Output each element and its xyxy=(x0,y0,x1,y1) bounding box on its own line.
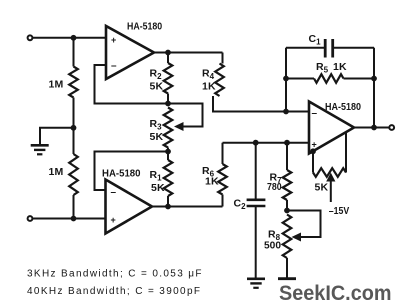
junction node U2 output / R1 xyxy=(165,204,171,210)
wire U2 feedback (node B to - input) xyxy=(95,152,169,191)
resistor R7 xyxy=(283,143,292,211)
input terminal J2 (bottom) xyxy=(28,216,33,221)
junction node input1/1M xyxy=(71,35,77,41)
label R7 xyxy=(270,172,283,186)
capacitor C2 xyxy=(247,200,266,206)
svg-text:1K: 1K xyxy=(202,81,216,93)
op-amp U2 HA-5180 (bottom) xyxy=(106,180,153,234)
junction node 1M mid / ground branch xyxy=(71,125,77,131)
label R2 value 5K xyxy=(150,81,164,93)
junction node 5K pot / U3 + input xyxy=(310,148,316,154)
resistor R6 xyxy=(218,143,227,207)
label R5 xyxy=(316,61,329,75)
wire input1 to op-amp U1 + input xyxy=(33,37,107,39)
caption line 2 xyxy=(27,286,200,297)
wire C2 bottom lead xyxy=(255,206,257,279)
svg-text:–: – xyxy=(312,108,318,119)
label R3 xyxy=(150,118,163,132)
label R4 xyxy=(202,68,215,82)
label R2 xyxy=(150,68,163,82)
resistor R5 xyxy=(286,74,374,83)
wire C2 top lead xyxy=(255,143,257,199)
svg-text:+: + xyxy=(111,35,116,45)
svg-text:+: + xyxy=(111,215,116,225)
wire U2 output xyxy=(152,206,223,208)
label R6 xyxy=(202,165,215,179)
label R7 value 780 xyxy=(267,182,282,193)
input terminal J1 (top) xyxy=(28,35,33,40)
svg-text:SeekIC.com: SeekIC.com xyxy=(279,281,392,305)
resistor 1M (bottom) xyxy=(69,128,78,219)
wire C1/R5 right vertical xyxy=(373,48,375,128)
svg-text:–15V: –15V xyxy=(329,205,350,217)
label HA-5180 (U3) xyxy=(325,102,361,113)
ground (R8) xyxy=(278,277,296,280)
svg-text:+: + xyxy=(312,140,317,150)
label R8 value 500 xyxy=(264,241,281,252)
output terminal J3 xyxy=(389,125,394,130)
label 5K (offset pot) xyxy=(315,182,329,194)
label 1M (bottom) xyxy=(49,166,64,178)
junction node C2 / + rail xyxy=(253,140,259,146)
junction node input2/1M xyxy=(71,216,77,222)
label C1 xyxy=(309,33,322,47)
wire ground branch xyxy=(40,128,74,145)
label R3 value 5K xyxy=(150,131,164,143)
watermark SeekIC.com xyxy=(279,281,392,305)
caption line 1 xyxy=(27,269,202,280)
op-amp U3 HA-5180 (right) xyxy=(309,102,354,154)
wire input2 to op-amp U2 + input xyxy=(33,218,106,220)
label HA-5180 (U2) xyxy=(102,168,141,179)
wire C1/R5 left vertical xyxy=(285,48,287,112)
wire U3 + input (non-inverting rail) xyxy=(223,142,310,144)
wire R8 wiper loop xyxy=(287,211,321,238)
wire U1 output xyxy=(154,52,223,54)
wiper arrowhead R8 xyxy=(292,233,302,242)
junction node U1 output / R2 xyxy=(165,50,171,56)
label R6 value 1K xyxy=(205,176,219,188)
svg-text:5K: 5K xyxy=(151,182,165,194)
svg-text:HA-5180: HA-5180 xyxy=(127,22,162,33)
label R1 value 5K xyxy=(151,182,165,194)
svg-text:–: – xyxy=(111,187,117,198)
potentiometer R8 xyxy=(283,215,292,278)
svg-text:40KHz Bandwidth; C = 3900pF: 40KHz Bandwidth; C = 3900pF xyxy=(27,286,200,297)
ground (C2) xyxy=(247,279,265,288)
ground (left) xyxy=(31,145,49,154)
svg-text:–: – xyxy=(111,61,117,72)
op-amp U1 HA-5180 (top) xyxy=(106,26,154,79)
svg-text:1M: 1M xyxy=(49,166,64,178)
svg-text:HA-5180: HA-5180 xyxy=(325,102,361,113)
svg-text:3KHz Bandwidth; C = 0.053 μF: 3KHz Bandwidth; C = 0.053 μF xyxy=(27,269,202,280)
wire C1 top left lead xyxy=(286,47,325,49)
svg-text:HA-5180: HA-5180 xyxy=(102,168,141,179)
label R4 value 1K xyxy=(202,81,216,93)
svg-text:1K: 1K xyxy=(205,176,219,188)
wiper arrow to -15V xyxy=(326,173,335,202)
resistor 1M (top) xyxy=(69,38,78,128)
node B (R3/R1/U2 inverting input) xyxy=(165,149,171,155)
node A (R2/R3/U1 inverting input) xyxy=(165,101,171,107)
junction node output / feedback xyxy=(371,125,377,131)
wire U3 output xyxy=(354,127,389,129)
svg-text:1K: 1K xyxy=(333,61,347,73)
label R1 xyxy=(150,169,163,183)
junction node R7 / + rail xyxy=(284,140,290,146)
wire U1 feedback (- input to node A) xyxy=(95,65,169,104)
label 1M (top) xyxy=(49,79,64,91)
label -15V xyxy=(329,205,350,217)
svg-text:500: 500 xyxy=(264,241,281,252)
svg-text:5K: 5K xyxy=(315,182,329,194)
wiper arrowhead R3 xyxy=(174,122,184,131)
svg-text:780: 780 xyxy=(267,182,282,193)
junction node left / - rail xyxy=(283,109,289,115)
svg-text:5K: 5K xyxy=(150,131,164,143)
junction node right / R5 xyxy=(371,76,377,82)
resistor R4 xyxy=(213,53,309,112)
svg-text:5K: 5K xyxy=(150,81,164,93)
resistor R2 xyxy=(164,53,173,104)
junction node left / R5 xyxy=(283,76,289,82)
capacitor C1 xyxy=(325,39,333,58)
label HA-5180 (U1) xyxy=(127,22,162,33)
resistor R1 xyxy=(164,152,173,207)
label C2 xyxy=(234,198,247,212)
potentiometer R3 xyxy=(164,108,173,152)
wire R3 wiper loop xyxy=(168,104,203,127)
potentiometer 5K (offset adjust) xyxy=(313,132,346,177)
label R8 xyxy=(268,229,281,243)
svg-text:1M: 1M xyxy=(49,79,64,91)
label R5 value 1K xyxy=(333,61,347,73)
junction node R7/R8 xyxy=(284,208,290,214)
wire C1 top right lead xyxy=(333,47,374,49)
